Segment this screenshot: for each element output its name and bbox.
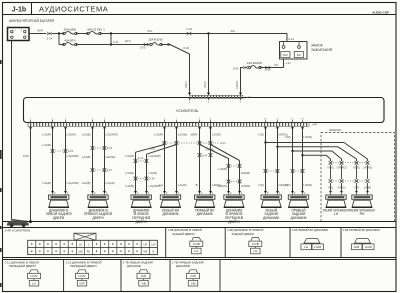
svg-text:LG/R: LG/R xyxy=(365,245,373,249)
svg-text:40A-22 KEY 1: 40A-22 KEY 1 xyxy=(87,28,105,32)
svg-text:L/G(R): L/G(R) xyxy=(154,133,163,137)
svg-text:L/G(W/B): L/G(W/B) xyxy=(149,154,161,158)
svg-text:ДИНАМИК: ДИНАМИК xyxy=(176,264,191,268)
svg-text:E-03: E-03 xyxy=(107,147,113,150)
svg-text:L/G(W/R): L/G(W/R) xyxy=(106,133,118,137)
svg-text:LG: LG xyxy=(32,281,37,285)
svg-text:ПЕРЕДНЕЙ ДВЕРИ: ПЕРЕДНЕЙ ДВЕРИ xyxy=(70,264,97,268)
svg-text:40A BTN: 40A BTN xyxy=(64,39,75,43)
svg-text:E-08: E-08 xyxy=(150,178,156,181)
svg-text:E-44: E-44 xyxy=(202,155,208,158)
svg-text:WAGON: WAGON xyxy=(329,128,341,132)
svg-text:F-08: F-08 xyxy=(186,27,192,31)
svg-text:E-12: E-12 xyxy=(138,157,144,160)
svg-text:L/G(R): L/G(R) xyxy=(42,133,51,137)
svg-text:L/G(R): L/G(R) xyxy=(212,133,221,137)
svg-text:G/R(B): G/R(B) xyxy=(241,171,250,175)
svg-text:LG: LG xyxy=(79,244,82,246)
svg-text:ДИНАМИК: ДИНАМИК xyxy=(197,212,213,216)
svg-text:Y(RG): Y(RG) xyxy=(327,167,334,170)
svg-text:L/R(B): L/R(B) xyxy=(206,148,214,152)
svg-text:J-4P: J-4P xyxy=(245,95,251,99)
svg-text:L/G: L/G xyxy=(151,147,156,151)
svg-text:L/G(B): L/G(B) xyxy=(42,181,51,185)
svg-text:ДИНАМИК: ДИНАМИК xyxy=(263,216,279,220)
svg-text:G/B: G/B xyxy=(190,274,195,278)
svg-text:E-14: E-14 xyxy=(221,142,227,145)
svg-text:LG: LG xyxy=(304,245,309,249)
svg-text:G/R(R): G/R(R) xyxy=(241,184,250,188)
svg-text:Y(RG): Y(RG) xyxy=(353,167,360,170)
svg-text:E-04: E-04 xyxy=(47,36,53,40)
svg-text:ДВЕРИ: ДВЕРИ xyxy=(92,216,104,220)
svg-text:ДВЕРИ: ДВЕРИ xyxy=(53,216,65,220)
svg-text:J6-08: J6-08 xyxy=(265,69,272,72)
svg-text:J-1B ПРАВЫЙ ВЧ ДИНАМИК: J-1B ПРАВЫЙ ВЧ ДИНАМИК xyxy=(343,228,381,232)
svg-text:15A RADIO: 15A RADIO xyxy=(247,61,263,65)
svg-text:LG/R: LG/R xyxy=(30,274,38,278)
svg-text:Y(R): Y(R) xyxy=(285,183,291,187)
svg-text:W(R): W(R) xyxy=(203,81,207,88)
svg-text:J5-01: J5-01 xyxy=(140,47,147,50)
svg-text:ДИНАМИК: ДИНАМИК xyxy=(290,216,306,220)
svg-text:L/R(R): L/R(R) xyxy=(364,187,372,190)
svg-text:L/G(B): L/G(B) xyxy=(82,181,91,185)
svg-text:LH: LH xyxy=(334,212,339,216)
svg-text:J-4P УСИЛИТЕЛЬ: J-4P УСИЛИТЕЛЬ xyxy=(5,229,31,233)
svg-text:Y/B: Y/B xyxy=(141,281,146,285)
svg-text:L/R(R): L/R(R) xyxy=(218,167,227,171)
svg-text:A-22: A-22 xyxy=(286,62,292,65)
svg-text:RA: RA xyxy=(87,250,91,253)
svg-text:L/G(R): L/G(R) xyxy=(125,171,134,175)
svg-text:L/R(R): L/R(R) xyxy=(235,81,239,89)
svg-text:30A MAIN: 30A MAIN xyxy=(64,28,77,32)
svg-text:W(R): W(R) xyxy=(184,81,188,88)
svg-text:L/R(RG): L/R(RG) xyxy=(363,167,372,170)
svg-text:LGB: LGB xyxy=(78,251,83,253)
svg-text:АККУМУЛЯТОРНАЯ БАТАРЕЯ: АККУМУЛЯТОРНАЯ БАТАРЕЯ xyxy=(9,19,55,23)
svg-text:LG: LG xyxy=(194,249,199,253)
svg-text:G/R(RG): G/R(RG) xyxy=(337,167,347,170)
svg-text:J-1b: J-1b xyxy=(12,6,26,13)
svg-text:W(R): W(R) xyxy=(191,133,198,137)
svg-text:L/G(B): L/G(B) xyxy=(82,133,91,137)
svg-text:L/G(R): L/G(R) xyxy=(178,183,187,187)
svg-text:G/R: G/R xyxy=(141,274,147,278)
svg-text:ЗАДНЕЙ ДВЕРИ: ЗАДНЕЙ ДВЕРИ xyxy=(232,232,254,236)
svg-text:G/R: G/R xyxy=(79,281,85,285)
svg-text:J-4P: J-4P xyxy=(312,123,318,127)
svg-text:L/G(R): L/G(R) xyxy=(42,143,51,147)
svg-text:J5-08: J5-08 xyxy=(183,47,190,50)
svg-text:L/R(W): L/R(W) xyxy=(218,184,227,188)
svg-text:G/R(G): G/R(G) xyxy=(337,187,345,190)
svg-text:Y/B: Y/B xyxy=(191,281,196,285)
svg-text:АУДИОСИСТЕМА: АУДИОСИСТЕМА xyxy=(39,5,108,14)
svg-text:Y(G): Y(G) xyxy=(328,187,333,190)
svg-text:L/G(W): L/G(W) xyxy=(178,133,187,137)
svg-text:LG/R: LG/R xyxy=(314,245,322,249)
svg-text:+: + xyxy=(20,28,22,32)
svg-text:LG/R: LG/R xyxy=(78,274,86,278)
svg-text:B: B xyxy=(196,183,198,187)
svg-text:G/R: G/R xyxy=(354,245,360,249)
svg-text:15A AUDIO: 15A AUDIO xyxy=(148,38,163,42)
svg-text:G/B: G/B xyxy=(143,251,147,253)
svg-text:J-1B ЛЕВЫЙ ВЧ ДИНАМИК: J-1B ЛЕВЫЙ ВЧ ДИНАМИК xyxy=(292,228,329,232)
svg-text:AUDIO CDP: AUDIO CDP xyxy=(372,10,389,14)
svg-text:ДИНАМИК: ДИНАМИК xyxy=(127,264,142,268)
svg-text:(R/Y): (R/Y) xyxy=(125,39,132,43)
svg-text:ДИНАМИК: ДИНАМИК xyxy=(162,212,178,216)
svg-text:УСИЛИТЕЛЬ: УСИЛИТЕЛЬ xyxy=(176,109,199,113)
svg-text:L/G(B): L/G(B) xyxy=(125,184,134,188)
svg-text:Y(G): Y(G) xyxy=(258,183,264,187)
svg-text:Y(R): Y(R) xyxy=(285,135,291,139)
svg-text:L/R(R): L/R(R) xyxy=(304,183,313,187)
svg-text:L/R(R): L/R(R) xyxy=(304,135,313,139)
svg-text:L/G(W): L/G(W) xyxy=(67,133,76,137)
svg-text:LG/B: LG/B xyxy=(252,242,259,246)
svg-text:L/G(B): L/G(B) xyxy=(149,171,158,175)
svg-text:ЗАДНЕЙ ДВЕРИ: ЗАДНЕЙ ДВЕРИ xyxy=(172,232,194,236)
svg-text:RH: RH xyxy=(360,212,365,216)
svg-text:W/R: W/R xyxy=(37,29,44,33)
svg-text:E-02: E-02 xyxy=(68,150,74,153)
svg-text:6 A-22: 6 A-22 xyxy=(286,37,295,41)
svg-text:W/L: W/L xyxy=(230,29,236,33)
svg-text:J6-06: J6-06 xyxy=(233,68,240,71)
svg-text:A-30: A-30 xyxy=(113,41,119,44)
svg-text:–: – xyxy=(14,28,16,32)
svg-text:L/R: L/R xyxy=(143,244,147,246)
svg-text:L/G(W/B): L/G(W/B) xyxy=(67,154,79,158)
svg-text:IG2: IG2 xyxy=(297,54,302,57)
svg-text:Y(R): Y(R) xyxy=(354,187,359,190)
svg-text:W/L: W/L xyxy=(147,29,153,33)
svg-text:LG/B: LG/B xyxy=(193,242,200,246)
svg-text:L/G(B): L/G(B) xyxy=(82,155,91,159)
svg-text:ПЕРЕДНЕЙ ДВЕРИ: ПЕРЕДНЕЙ ДВЕРИ xyxy=(9,264,36,268)
svg-text:L/G(R): L/G(R) xyxy=(125,154,134,158)
svg-text:L/G(W): L/G(W) xyxy=(106,181,115,185)
svg-text:L/R: L/R xyxy=(274,63,278,67)
svg-text:L/G(W/R): L/G(W/R) xyxy=(67,181,79,185)
svg-text:E-07: E-07 xyxy=(107,169,113,172)
svg-text:ЗАЖИГАНИЯ: ЗАЖИГАНИЯ xyxy=(311,48,333,52)
svg-text:Y(G): Y(G) xyxy=(258,133,264,137)
svg-text:G/R(W): G/R(W) xyxy=(106,155,116,159)
svg-text:LG: LG xyxy=(253,249,258,253)
svg-text:ACC: ACC xyxy=(283,54,288,57)
svg-text:P(W): P(W) xyxy=(23,154,29,158)
